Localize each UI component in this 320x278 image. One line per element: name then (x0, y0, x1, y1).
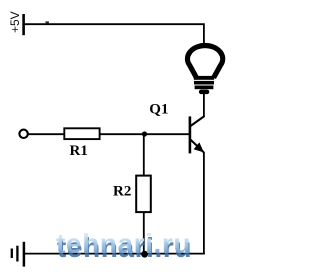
wire input to R1 (28, 133, 65, 135)
junction node base/R2 (142, 131, 147, 136)
lamp DS1 bulb outline (188, 45, 223, 77)
svg-text:R2: R2 (113, 183, 131, 199)
lamp base thread bar 1 (194, 76, 214, 80)
wire emitter down (203, 152, 205, 254)
wire top rail (25, 24, 204, 43)
resistor R1 body (64, 128, 99, 139)
junction node emitter/R2/ground (141, 251, 148, 258)
input terminal circle (19, 130, 27, 138)
wire artifact tick (46, 21, 49, 23)
wire R2 bottom (143, 212, 145, 254)
watermark tehnari.ru shadow (57, 234, 232, 264)
transistor Q1 emitter arrowhead (194, 142, 204, 152)
transistor Q1 collector diagonal (191, 116, 205, 126)
transistor Q1 base bar (189, 116, 192, 153)
watermark tehnari.ru (56, 230, 231, 260)
resistor R2 body (136, 176, 151, 213)
lamp bottom contact tip (199, 90, 209, 95)
svg-text:+5V: +5V (8, 11, 22, 33)
ground bar medium (16, 246, 18, 262)
lamp base thread bar 2 (194, 81, 214, 85)
wire lamp to collector (203, 94, 205, 117)
lamp base thread bar 3 (195, 86, 214, 90)
power terminal +5V bar (22, 14, 25, 35)
wire bottom rail (24, 253, 205, 255)
wire R1 to base (100, 133, 190, 135)
ground bar tall (23, 242, 26, 267)
transistor Q1 emitter diagonal (191, 140, 204, 153)
wire R2 top (143, 134, 145, 176)
ground bar short (11, 249, 13, 259)
svg-text:Q1: Q1 (149, 101, 168, 117)
svg-text:R1: R1 (70, 143, 88, 159)
